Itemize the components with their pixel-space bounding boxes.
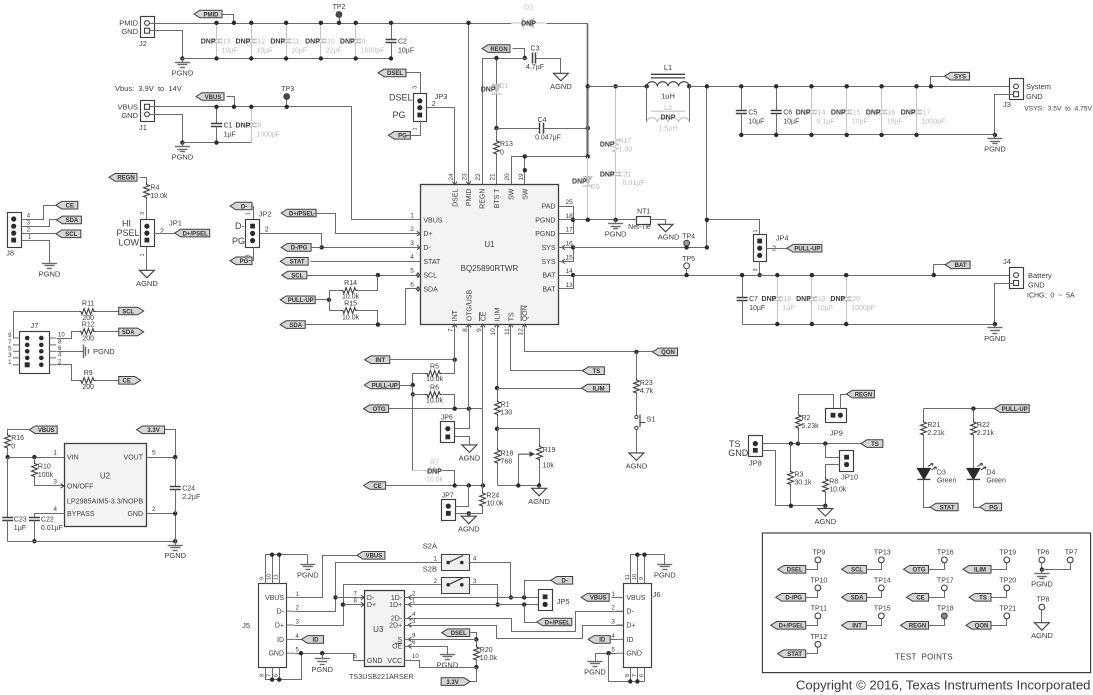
svg-text:10.0k: 10.0k	[426, 477, 444, 484]
svg-text:D+: D+	[423, 231, 432, 238]
wire U3 2D+ to J6 D+	[405, 626, 624, 639]
svg-text:TP3: TP3	[281, 86, 294, 93]
svg-text:8: 8	[625, 674, 631, 677]
svg-text:R14: R14	[344, 280, 357, 287]
svg-text:R6: R6	[430, 385, 439, 392]
wire J4 GND to PGND	[993, 284, 1014, 327]
wire J3 GND to PGND	[993, 95, 1014, 138]
svg-text:0.01µF: 0.01µF	[41, 525, 63, 532]
svg-text:J3: J3	[1003, 100, 1011, 109]
svg-text:PGND: PGND	[164, 551, 186, 560]
net flag D+/PSEL (JP5)	[525, 605, 572, 627]
svg-text:TS3USB221ARSER: TS3USB221ARSER	[349, 672, 414, 681]
svg-text:PULL-UP: PULL-UP	[794, 247, 820, 253]
svg-text:DNP: DNP	[340, 39, 355, 46]
svg-text:ID: ID	[313, 638, 320, 644]
connector JP8	[728, 436, 762, 468]
svg-text:TP18: TP18	[937, 605, 954, 612]
svg-text:VCC: VCC	[387, 658, 402, 665]
svg-text:PMID: PMID	[466, 189, 473, 207]
svg-text:C18: C18	[778, 296, 791, 303]
svg-text:1D+: 1D+	[389, 602, 402, 609]
capacitor C11 DNP 10µF	[270, 21, 307, 61]
svg-text:GND: GND	[121, 111, 138, 120]
capacitor C24 2.2µF	[170, 458, 201, 514]
svg-text:CE: CE	[373, 484, 381, 490]
wire VBUS bottom rail	[183, 142, 252, 144]
resistor R20 10.0k	[474, 640, 498, 670]
snubber C21 DNP 0.01µF	[600, 153, 645, 221]
test point TP13 / flag SCL	[842, 549, 891, 573]
connector J3	[1003, 79, 1092, 113]
svg-text:AGND: AGND	[136, 279, 158, 288]
capacitor C17 DNP 1000pF	[901, 84, 946, 137]
svg-text:1uH: 1uH	[661, 92, 675, 101]
wire J8 pin1 to PGND	[22, 241, 50, 260]
resistor R2 5.23k	[796, 395, 834, 444]
svg-text:1µF: 1µF	[224, 131, 236, 138]
svg-text:2: 2	[160, 228, 164, 235]
svg-text:C9: C9	[357, 39, 366, 46]
capacitor C8 DNP 1000pF	[236, 105, 281, 143]
svg-text:PGND: PGND	[654, 570, 676, 579]
jumper JP1	[116, 212, 181, 257]
svg-text:10: 10	[58, 333, 65, 339]
capacitor C22 0.01µF	[29, 514, 65, 544]
svg-text:3: 3	[53, 478, 57, 485]
svg-text:R5: R5	[430, 363, 439, 370]
wire U3 1D+ to JP5 pin2	[405, 602, 540, 606]
svg-text:PG: PG	[392, 110, 405, 120]
resistor R21 2.21k	[921, 409, 945, 469]
svg-text:30.1k: 30.1k	[794, 480, 812, 487]
ground PGND (J5 top)	[297, 561, 319, 580]
resistor R13 0	[494, 129, 513, 185]
net flag VBUS (J6)	[581, 594, 616, 602]
svg-text:13: 13	[566, 282, 574, 289]
jumper JP2	[232, 210, 271, 258]
svg-text:SDA: SDA	[66, 218, 79, 224]
svg-text:10: 10	[412, 654, 419, 660]
wire J1 VBUS rail to U1 pin1	[150, 107, 421, 220]
svg-text:AGND: AGND	[458, 525, 480, 534]
svg-text:D-: D-	[367, 595, 375, 602]
svg-text:R21: R21	[927, 422, 940, 429]
wire U3 D+ input	[344, 604, 365, 606]
svg-text:GND: GND	[268, 651, 284, 658]
svg-text:JP7: JP7	[442, 493, 454, 500]
connector J6	[612, 574, 661, 677]
svg-text:JP1: JP1	[169, 219, 182, 228]
svg-text:10µF: 10µF	[748, 118, 764, 125]
svg-text:24: 24	[448, 173, 455, 181]
resistor R8 10.0k	[823, 465, 847, 506]
ground AGND (NT1)	[658, 220, 680, 242]
svg-text:DNP: DNP	[572, 179, 587, 186]
svg-text:D-: D-	[423, 245, 431, 252]
svg-text:C7: C7	[749, 296, 758, 303]
svg-text:STAT: STAT	[940, 505, 955, 511]
test point TP11 / flag D+/PSEL	[771, 605, 827, 629]
svg-text:TP12: TP12	[811, 634, 828, 641]
svg-text:DNP: DNP	[600, 172, 615, 179]
svg-text:JP8: JP8	[749, 458, 762, 467]
wire U1 INT pin7 down	[454, 325, 456, 360]
test point TP5	[682, 256, 695, 277]
svg-text:PULL-UP: PULL-UP	[372, 383, 398, 389]
svg-text:SCL: SCL	[122, 309, 134, 315]
net flag D- (JP2)	[230, 202, 254, 219]
wire J6 shield top to PGND	[631, 553, 665, 584]
svg-text:PG: PG	[398, 134, 407, 140]
svg-text:TEST POINTS: TEST POINTS	[895, 652, 953, 661]
capacitor C10 DNP 22µF	[305, 21, 342, 61]
wire JP1 pin1 to AGND	[146, 247, 148, 268]
net flag D+/PSEL (JP1)	[175, 229, 210, 237]
test point TP15 / flag INT	[842, 605, 891, 629]
ground AGND (R19)	[528, 486, 550, 506]
wire SYS vertical	[705, 84, 709, 249]
wire J5 D- net (to U3 and S2A)	[295, 563, 442, 612]
svg-text:10µF: 10µF	[222, 47, 238, 54]
svg-text:D+: D+	[367, 602, 376, 609]
svg-text:PG: PG	[232, 236, 245, 246]
svg-text:PGND: PGND	[297, 570, 319, 579]
svg-text:D-: D-	[277, 609, 285, 616]
net flag REGN (JP9)	[841, 390, 875, 408]
svg-text:TS: TS	[508, 312, 515, 321]
svg-text:OTG: OTG	[373, 407, 386, 413]
wire J6 GND to PGND	[596, 651, 617, 658]
wire U3 1D- to JP5 pin1	[405, 595, 540, 599]
svg-text:TP4: TP4	[682, 234, 695, 241]
svg-text:22: 22	[475, 173, 482, 181]
svg-text:C19: C19	[813, 296, 826, 303]
svg-text:R3: R3	[794, 472, 803, 479]
ground PGND (J8)	[39, 260, 61, 279]
svg-text:R22: R22	[977, 422, 990, 429]
svg-text:2D+: 2D+	[389, 623, 402, 630]
svg-text:3: 3	[753, 268, 759, 271]
svg-text:C21: C21	[619, 172, 632, 179]
svg-text:STAT: STAT	[290, 260, 305, 266]
resistor R12 200	[79, 322, 119, 343]
svg-text:3: 3	[140, 212, 146, 215]
svg-text:D-: D-	[241, 204, 247, 210]
pushbutton S1	[635, 415, 656, 451]
svg-text:C8: C8	[252, 123, 261, 130]
svg-text:DNP: DNP	[762, 296, 777, 303]
svg-text:JP6: JP6	[441, 414, 453, 421]
svg-text:DSEL: DSEL	[787, 568, 803, 574]
svg-text:4.7µF: 4.7µF	[526, 64, 544, 71]
svg-text:REGN: REGN	[480, 189, 487, 209]
svg-text:10µF: 10µF	[887, 118, 903, 125]
connector J8	[6, 213, 32, 258]
svg-text:SYS: SYS	[541, 259, 555, 266]
switch S2B	[423, 565, 477, 594]
svg-text:D5: D5	[591, 184, 600, 191]
svg-text:10.0k: 10.0k	[342, 314, 360, 321]
svg-text:System: System	[1026, 82, 1051, 91]
svg-text:0: 0	[500, 150, 504, 157]
svg-text:CE: CE	[916, 596, 924, 602]
svg-text:2.21k: 2.21k	[927, 430, 945, 437]
wire J2 GND to PGND	[150, 31, 183, 59]
svg-text:Battery: Battery	[1028, 271, 1052, 280]
net-tie NT1	[628, 209, 665, 232]
wire JP8 GND to AGND rail	[763, 451, 828, 508]
diode D5 DNP (SW-PGND)	[572, 157, 600, 221]
net flag QON	[653, 348, 678, 356]
net flag VBUS	[196, 93, 236, 109]
svg-text:SDA: SDA	[423, 286, 438, 293]
wire BAT rail	[574, 275, 1011, 277]
svg-text:JP5: JP5	[557, 597, 570, 606]
svg-text:R11: R11	[82, 301, 94, 308]
svg-text:200: 200	[82, 384, 94, 391]
capacitor C7 10µF	[737, 273, 766, 325]
svg-text:C11: C11	[287, 39, 299, 46]
wire J8 pin4 to CE flag	[22, 206, 56, 220]
jumper JP9	[826, 409, 847, 438]
svg-text:2.21k: 2.21k	[977, 430, 995, 437]
wire U3 2D- to J6 D-	[405, 612, 624, 632]
ground AGND (S1)	[626, 451, 648, 471]
wire U1 TS pin11 down	[511, 325, 583, 371]
svg-text:C12: C12	[252, 39, 265, 46]
svg-text:J4: J4	[1003, 257, 1011, 266]
svg-text:2: 2	[772, 246, 776, 253]
net flag REGN (C3)	[482, 45, 527, 60]
svg-text:ID: ID	[626, 637, 633, 644]
svg-text:10µF: 10µF	[291, 47, 307, 54]
net flag CE (J8)	[56, 201, 78, 209]
IC U1 BQ25890RTWR	[410, 173, 573, 336]
svg-text:21: 21	[490, 173, 497, 181]
svg-text:10µF: 10µF	[852, 118, 868, 125]
svg-text:STAT: STAT	[787, 652, 802, 658]
svg-text:10µF: 10µF	[398, 47, 414, 54]
svg-text:1.00: 1.00	[619, 147, 633, 154]
wire U3 S pin9	[405, 639, 477, 641]
svg-text:TP17: TP17	[937, 577, 954, 584]
svg-text:REGN: REGN	[909, 624, 926, 630]
svg-text:3.3V: 3.3V	[446, 680, 458, 686]
svg-text:C13: C13	[218, 39, 231, 46]
svg-text:NT1: NT1	[637, 209, 650, 216]
svg-text:4.7k: 4.7k	[640, 388, 654, 395]
inductor L2 DNP 1.5µH	[647, 87, 690, 133]
svg-text:U1: U1	[484, 240, 495, 249]
ground PGND (J7 pin6, rotated)	[57, 345, 116, 359]
ground AGND (JP7)	[458, 514, 480, 534]
connector J7	[8, 321, 65, 374]
resistor R10 100k	[32, 458, 65, 486]
svg-text:5: 5	[410, 268, 414, 275]
svg-text:2: 2	[432, 101, 436, 108]
svg-text:U2: U2	[100, 472, 111, 481]
svg-text:23: 23	[462, 173, 469, 181]
jumper JP5	[539, 590, 570, 611]
svg-text:SYS: SYS	[954, 75, 966, 81]
svg-text:SCL: SCL	[851, 568, 863, 574]
svg-text:R24: R24	[486, 493, 499, 500]
svg-text:L2: L2	[664, 105, 672, 112]
svg-text:C16: C16	[883, 110, 896, 117]
svg-text:ILIM: ILIM	[495, 308, 502, 322]
svg-text:TP2: TP2	[333, 4, 346, 11]
resistor R1 130	[495, 389, 513, 431]
svg-text:C22: C22	[41, 516, 54, 523]
test point TP2	[333, 4, 346, 25]
wire J7 pin10 to R12 (SDA)	[57, 332, 79, 339]
svg-text:1000pF: 1000pF	[851, 305, 875, 312]
svg-text:D-: D-	[626, 609, 634, 616]
svg-text:2: 2	[265, 227, 269, 234]
svg-text:TP9: TP9	[812, 549, 825, 556]
net flag PULL-UP (R14/R15)	[280, 296, 331, 304]
svg-text:1: 1	[246, 212, 252, 215]
test point TP10 / flag D-/PG	[776, 577, 828, 601]
svg-text:OTG/USB: OTG/USB	[466, 289, 473, 321]
svg-text:PGND: PGND	[39, 269, 61, 278]
connector J5	[242, 574, 299, 677]
svg-text:DNP: DNP	[661, 114, 676, 121]
net flag SDA (J7)	[119, 328, 144, 336]
svg-text:R13: R13	[500, 141, 513, 148]
svg-text:TP15: TP15	[874, 605, 891, 612]
svg-text:AGND: AGND	[550, 82, 572, 91]
wire U1 QON pin12 down	[525, 325, 653, 355]
svg-text:JP2: JP2	[259, 210, 272, 219]
svg-text:PGND: PGND	[172, 68, 194, 77]
svg-text:D+: D+	[275, 623, 284, 630]
resistor R23 4.7k	[634, 352, 654, 416]
svg-text:C17: C17	[918, 110, 931, 117]
svg-text:10µF: 10µF	[817, 305, 833, 312]
svg-text:D+/PSEL: D+/PSEL	[545, 620, 571, 626]
svg-text:10.0k: 10.0k	[342, 294, 360, 301]
wire R18/R19 bottom to AGND	[498, 483, 542, 487]
net flag SDA (J8)	[56, 216, 81, 224]
svg-text:CE: CE	[123, 379, 131, 385]
switch S2A	[423, 542, 477, 571]
svg-text:200: 200	[82, 336, 94, 343]
svg-text:CE: CE	[480, 311, 487, 321]
ground AGND (JP6)	[459, 443, 481, 463]
ground PGND (U1)	[605, 220, 627, 239]
svg-text:SDA: SDA	[289, 323, 302, 329]
wire J8 pin2 to SCL flag	[22, 233, 56, 235]
wire U1 SYS bracket	[559, 245, 576, 261]
svg-text:J2: J2	[139, 39, 147, 48]
wire U1 CE pin9 down	[482, 325, 484, 486]
svg-text:10.0k: 10.0k	[486, 501, 504, 508]
svg-text:QON: QON	[522, 305, 529, 321]
capacitor C13 DNP 10µF	[201, 21, 238, 61]
svg-text:GND: GND	[1026, 92, 1043, 101]
svg-text:INT: INT	[852, 624, 862, 630]
svg-text:J5: J5	[242, 621, 250, 630]
svg-text:TP7: TP7	[1065, 549, 1078, 556]
svg-text:J7: J7	[31, 321, 39, 330]
wire PMID pin23 vertical	[466, 21, 470, 185]
capacitor C6 10µF	[771, 84, 800, 137]
wire JP4 pin3 to BAT rail	[758, 262, 762, 278]
svg-text:7: 7	[267, 674, 273, 677]
svg-text:PGND: PGND	[93, 347, 115, 356]
capacitor C3 4.7µF	[526, 46, 561, 72]
wire S2A pin4 to 1D-	[469, 563, 514, 600]
svg-text:10.0k: 10.0k	[150, 193, 168, 200]
wire TS line	[763, 441, 861, 445]
diode D2 DNP (PMID-SW)	[511, 5, 546, 29]
svg-text:DNP: DNP	[236, 123, 251, 130]
net flag DSEL	[378, 69, 421, 93]
svg-text:SW: SW	[509, 188, 516, 200]
IC U2 LP2985AIM5-3.3/NOPB	[53, 444, 156, 527]
jumper JP4	[705, 218, 789, 272]
test points box	[762, 533, 1090, 673]
svg-text:Green: Green	[986, 477, 1006, 484]
net flag PMID	[194, 10, 236, 25]
wire J7 pin2 to R9 (CE)	[57, 365, 79, 381]
svg-text:TP20: TP20	[999, 577, 1016, 584]
svg-text:0.047µF: 0.047µF	[535, 135, 561, 142]
resistor R14 10.0k	[330, 276, 378, 301]
svg-text:6: 6	[410, 281, 414, 288]
svg-text:DNP: DNP	[521, 21, 536, 28]
svg-text:1µF: 1µF	[14, 525, 26, 532]
svg-text:9: 9	[476, 328, 483, 332]
net flag VBUS (U2)	[8, 426, 58, 435]
resistor R5 10.0k	[413, 360, 455, 386]
svg-text:6: 6	[274, 674, 280, 677]
svg-text:OE: OE	[392, 644, 402, 651]
wire J5 shield bottom	[266, 654, 302, 682]
wire U2 GND pin2	[147, 511, 178, 541]
svg-text:DSEL: DSEL	[452, 189, 459, 207]
test point TP8	[1036, 597, 1049, 620]
svg-text:SDA: SDA	[122, 330, 135, 336]
svg-text:C6: C6	[783, 110, 792, 117]
svg-text:10µF: 10µF	[256, 47, 272, 54]
connector J4	[1003, 257, 1075, 300]
net flag STAT (U1)	[280, 258, 420, 266]
net flag PG (D4)	[980, 503, 1002, 511]
svg-text:R20: R20	[480, 647, 493, 654]
svg-text:D3: D3	[937, 469, 946, 476]
test point TP3	[281, 86, 294, 109]
svg-text:D-: D-	[235, 221, 245, 231]
wire J5 shield top to PGND	[266, 553, 308, 584]
wire U3 D- input	[336, 597, 365, 599]
net flag ID (J5)	[295, 636, 324, 644]
svg-text:AGND: AGND	[459, 453, 481, 462]
resistor R11 200	[79, 301, 119, 322]
svg-text:Copyright © 2016, Texas Instru: Copyright © 2016, Texas Instruments Inco…	[796, 678, 1091, 693]
resistor R6 10.0k	[411, 385, 455, 409]
test point TP21 / flag QON	[966, 605, 1016, 629]
svg-text:PGND: PGND	[311, 665, 333, 674]
svg-text:GND: GND	[728, 448, 749, 458]
svg-text:AGND: AGND	[1031, 631, 1053, 640]
svg-text:TS: TS	[871, 442, 879, 448]
svg-text:11: 11	[504, 328, 511, 335]
svg-text:15: 15	[566, 254, 574, 261]
wire J1 GND to PGND	[150, 115, 183, 143]
